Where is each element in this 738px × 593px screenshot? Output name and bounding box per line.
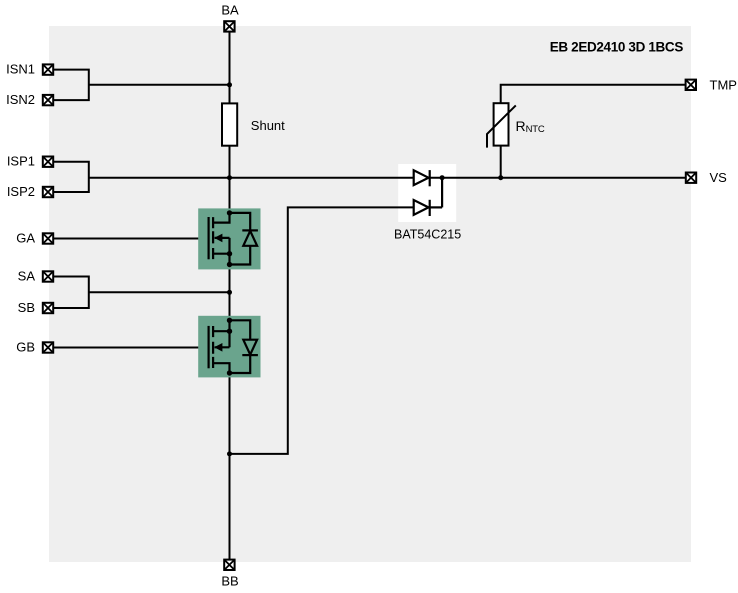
- svg-text:Shunt: Shunt: [251, 118, 285, 133]
- wire BA to shunt: [229, 33, 231, 104]
- terminal GA: [43, 233, 53, 243]
- wire RNTC top to TMP: [501, 85, 686, 103]
- BAT54C215 background: [398, 164, 456, 222]
- wire shunt bottom to Q_A drain: [229, 146, 231, 213]
- svg-text:EB 2ED2410 3D 1BCS: EB 2ED2410 3D 1BCS: [550, 39, 684, 54]
- arrow Q_B: [214, 343, 222, 352]
- channel segments: [212, 217, 214, 259]
- node RNTC/VS junction: [498, 175, 503, 180]
- node bottom branch junction: [227, 451, 232, 456]
- drain stub: [213, 363, 229, 373]
- transistor Q_A (top MOSFET, gate GA): [198, 208, 260, 269]
- svg-text:ISP1: ISP1: [7, 154, 35, 169]
- wire GA to gate: [54, 238, 209, 240]
- source stub: [213, 253, 229, 255]
- node D1/D2 cathode junction: [440, 175, 445, 180]
- svg-text:ISP2: ISP2: [7, 184, 35, 199]
- node Q_A drain: [227, 210, 232, 215]
- gate electrode: [208, 326, 210, 368]
- svg-text:SA: SA: [18, 269, 36, 284]
- wire SA/SB bracket: [54, 277, 89, 309]
- svg-text:GA: GA: [16, 231, 35, 246]
- terminal ISN2: [43, 95, 53, 105]
- diode D1 (top, to VS): [414, 170, 430, 186]
- svg-text:BA: BA: [221, 2, 239, 17]
- node SA/SB junction: [227, 290, 232, 295]
- svg-text:VS: VS: [710, 170, 728, 185]
- node Q_B drain: [227, 370, 232, 375]
- body diode D_B: [230, 356, 251, 373]
- terminal ISP1: [43, 157, 53, 167]
- node ISP/VS junction: [227, 175, 232, 180]
- terminal SB: [43, 303, 53, 313]
- body diode D_A: [230, 213, 251, 230]
- svg-text:GB: GB: [16, 340, 35, 355]
- svg-text:TMP: TMP: [710, 77, 737, 92]
- drain stub: [213, 213, 229, 223]
- wire Q_A source to Q_B top: [229, 265, 231, 321]
- node Q_A diode: [227, 262, 232, 267]
- wire ISP1/ISP2 bracket: [54, 162, 89, 192]
- terminal GB: [43, 342, 53, 352]
- node ISN junction: [227, 82, 232, 87]
- wire D1 cathode to VS: [430, 177, 686, 179]
- wire ISN node to main line: [89, 84, 230, 86]
- diode D2 (bottom): [414, 178, 442, 216]
- wire D2 anode branch to node B: [230, 207, 414, 454]
- source/body line: [215, 238, 230, 265]
- shunt resistor: [222, 103, 237, 145]
- transistor Q_B (bottom MOSFET, gate GB): [198, 316, 260, 378]
- svg-text:ISN2: ISN2: [6, 92, 35, 107]
- source/body line: [215, 320, 230, 347]
- resistor RNTC: [487, 103, 516, 147]
- node Q_B diode top: [227, 318, 232, 323]
- gate electrode: [208, 217, 210, 259]
- node Q_A source: [227, 251, 232, 256]
- terminal ISP2: [43, 187, 53, 197]
- channel segments: [212, 326, 214, 368]
- wire SA/SB node to main line: [89, 291, 230, 293]
- terminal SA: [43, 271, 53, 281]
- arrow Q_A: [214, 234, 222, 243]
- board EB 2ED2410 3D 1BCS area: [49, 26, 691, 562]
- svg-text:BAT54C215: BAT54C215: [394, 228, 461, 242]
- svg-text:BB: BB: [221, 574, 238, 589]
- source stub: [213, 330, 229, 332]
- terminal BB: [224, 560, 234, 570]
- wire ISN1/ISN2 bracket: [54, 70, 89, 101]
- wire ISP node to D1 anode: [89, 177, 414, 179]
- wire GB to gate: [54, 347, 209, 349]
- node Q_B source: [227, 329, 232, 334]
- terminal ISN1: [43, 64, 53, 74]
- terminal TMP: [686, 80, 696, 90]
- svg-text:ISN1: ISN1: [6, 62, 35, 77]
- svg-text:SB: SB: [18, 300, 35, 315]
- wire RNTC bottom to VS line: [500, 146, 502, 178]
- terminal VS: [686, 173, 696, 183]
- wire Q_B drain to BB: [229, 373, 231, 559]
- terminal BA: [224, 21, 234, 31]
